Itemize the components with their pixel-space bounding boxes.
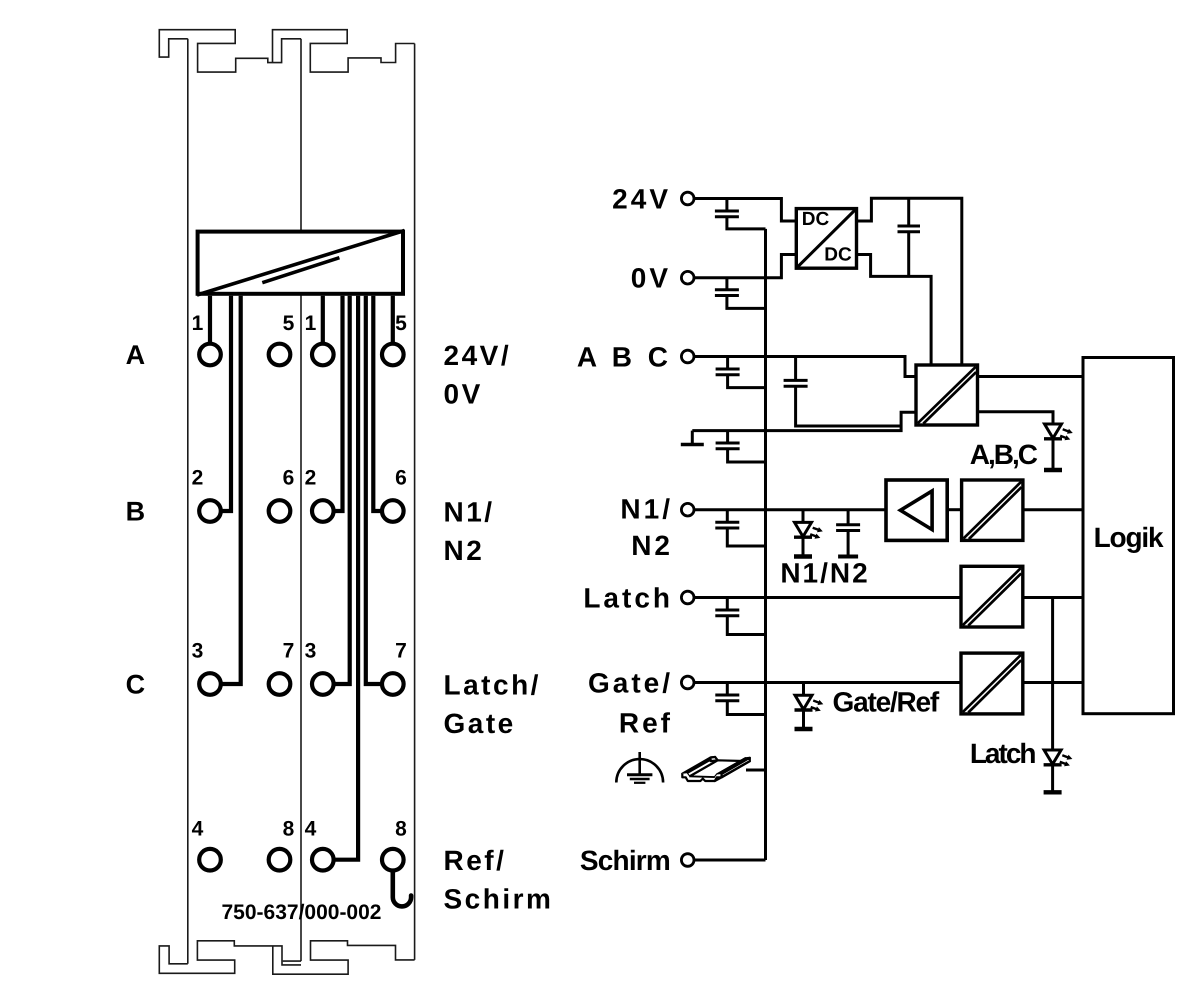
LED ABC <box>1044 424 1073 470</box>
terminal 7 left <box>269 673 291 695</box>
wire N1 isolator to Logik <box>1023 508 1083 511</box>
capacitor C5 ABC right <box>794 357 797 381</box>
svg-text:Ref: Ref <box>619 708 673 739</box>
svg-text:N1/N2: N1/N2 <box>780 558 869 589</box>
svg-text:N2: N2 <box>444 535 485 566</box>
wire comparator to N1 isolator <box>947 508 961 511</box>
ABC isolator box <box>916 365 978 425</box>
capacitor C1 24V <box>725 199 728 212</box>
common bus <box>764 229 767 860</box>
svg-text:Logik: Logik <box>1094 522 1164 553</box>
capacitor C9 Latch <box>726 598 729 611</box>
svg-text:Gate: Gate <box>444 708 516 739</box>
capacitor C4 ABC <box>726 357 729 370</box>
wire A B C input <box>694 357 916 377</box>
schematic terminal circles <box>681 192 694 866</box>
wire box to terminal 3 left <box>222 296 240 684</box>
terminal 2 left <box>199 500 221 522</box>
svg-text:1: 1 <box>192 312 204 335</box>
svg-text:2: 2 <box>192 466 204 489</box>
module terminal labels <box>444 340 554 915</box>
wire N1 input <box>694 508 886 511</box>
wire box to terminal 2 right <box>335 296 342 511</box>
svg-text:750-637/000-002: 750-637/000-002 <box>222 901 382 924</box>
Gate isolator box <box>961 653 1023 714</box>
svg-text:6: 6 <box>283 466 295 489</box>
terminal 3 right <box>312 673 334 695</box>
wire 0V input <box>694 255 796 278</box>
wire DCDC out top <box>857 198 962 365</box>
wire Latch isolator to Logik <box>1023 596 1083 599</box>
svg-text:Schirm: Schirm <box>444 884 554 915</box>
wire ABC isolator to LED <box>978 412 1054 424</box>
terminal circles <box>199 344 403 871</box>
shield curl at terminal 8 <box>393 872 411 907</box>
svg-text:8: 8 <box>395 818 407 841</box>
module housing bottom contour right <box>273 941 415 974</box>
svg-text:B: B <box>126 497 146 527</box>
ground wire to ABC isolator <box>692 412 916 430</box>
terminal numbers <box>192 312 408 841</box>
svg-text:6: 6 <box>395 466 407 489</box>
svg-text:DC: DC <box>824 245 852 266</box>
svg-text:Gate/Ref: Gate/Ref <box>833 686 940 717</box>
Latch isolator box <box>961 566 1023 627</box>
terminal 8 right <box>382 849 404 871</box>
svg-text:C: C <box>126 670 146 700</box>
svg-text:Latch/: Latch/ <box>444 670 541 701</box>
wire DIN rail to bus <box>746 769 766 772</box>
wire DCDC out bottom <box>857 255 932 366</box>
svg-text:N1/: N1/ <box>620 494 673 525</box>
N1 isolator box <box>962 480 1023 540</box>
svg-text:0V: 0V <box>631 263 671 294</box>
LED N1N2 <box>794 510 823 557</box>
wire Gate input <box>694 681 961 684</box>
module right wall <box>414 44 416 960</box>
electronics box U1 <box>197 231 405 296</box>
svg-text:24V/: 24V/ <box>444 340 512 371</box>
module housing top contour right <box>273 30 415 72</box>
svg-text:2: 2 <box>305 466 317 489</box>
module housing top contour left <box>159 30 301 72</box>
svg-text:4: 4 <box>305 818 317 841</box>
svg-text:24V: 24V <box>612 184 671 215</box>
comparator box <box>886 480 947 540</box>
wire Gate isolator to Logik <box>1023 681 1083 684</box>
wire Latch input <box>694 596 961 599</box>
module housing bottom contour left <box>159 941 301 974</box>
wire box to terminal 6 right <box>373 296 380 511</box>
terminal 4 right <box>312 849 334 871</box>
svg-text:Latch: Latch <box>583 583 673 614</box>
terminal 4 left <box>199 849 221 871</box>
svg-text:A: A <box>126 340 146 370</box>
PE ground symbol <box>616 752 663 783</box>
row letters A B C <box>126 340 146 700</box>
module center wall <box>300 39 302 961</box>
capacitor C10 Gate <box>726 683 729 696</box>
LED Latch <box>1044 750 1073 792</box>
terminal 6 right <box>382 500 404 522</box>
wire 24V input <box>694 199 796 222</box>
module left wall <box>187 39 189 964</box>
wire Schirm input <box>694 859 765 862</box>
schematic input labels <box>577 184 673 877</box>
wire box to terminal 7 right <box>366 296 381 684</box>
wire ABC isolator to Logik <box>978 375 1084 378</box>
svg-text:4: 4 <box>192 818 204 841</box>
terminal 8 left <box>269 849 291 871</box>
terminal 1 left <box>199 344 221 366</box>
capacitor C2 0V <box>725 278 728 290</box>
svg-text:7: 7 <box>283 639 295 662</box>
DIN rail symbol <box>682 757 750 781</box>
svg-text:A,B,C: A,B,C <box>970 439 1038 470</box>
wire box to terminal 5 right <box>391 296 395 342</box>
wire box to terminal 1 right <box>321 296 325 342</box>
svg-text:A B C: A B C <box>577 342 672 373</box>
capacitor C3 DCDC <box>907 198 910 226</box>
LED GateRef <box>795 683 824 730</box>
Logik box <box>1083 358 1174 714</box>
terminal 5 left <box>269 344 291 366</box>
wire box to terminal 3 right <box>335 296 350 684</box>
terminal 3 left <box>199 673 221 695</box>
wire box to terminal 2 left <box>222 296 231 511</box>
capacitor C8 N1 tick <box>847 510 850 525</box>
capacitor C6 lower ABC <box>726 431 729 443</box>
terminal 1 right <box>312 344 334 366</box>
svg-text:3: 3 <box>192 639 204 662</box>
capacitor C7 N1 <box>726 510 729 523</box>
wire box to terminal 1 left <box>208 296 212 342</box>
svg-text:Ref/: Ref/ <box>444 845 507 876</box>
svg-text:8: 8 <box>283 818 295 841</box>
DC DC converter <box>796 209 856 269</box>
svg-text:1: 1 <box>305 312 317 335</box>
svg-text:Latch: Latch <box>970 738 1036 769</box>
svg-text:3: 3 <box>305 639 317 662</box>
terminal 6 left <box>269 500 291 522</box>
svg-text:Schirm: Schirm <box>580 845 670 876</box>
svg-text:DC: DC <box>802 209 830 230</box>
svg-text:7: 7 <box>395 639 407 662</box>
terminal 2 right <box>312 500 334 522</box>
svg-text:5: 5 <box>395 312 407 335</box>
svg-text:Gate/: Gate/ <box>588 668 673 699</box>
wire latch LED branch <box>1051 598 1054 751</box>
terminal 7 right <box>382 673 404 695</box>
svg-text:N2: N2 <box>631 530 673 561</box>
ground symbol 1 <box>691 431 694 443</box>
svg-text:5: 5 <box>283 312 295 335</box>
terminal 5 right <box>382 344 404 366</box>
wire box to terminal 4 right <box>335 296 358 860</box>
svg-text:N1/: N1/ <box>444 497 495 528</box>
svg-text:0V: 0V <box>444 378 483 409</box>
